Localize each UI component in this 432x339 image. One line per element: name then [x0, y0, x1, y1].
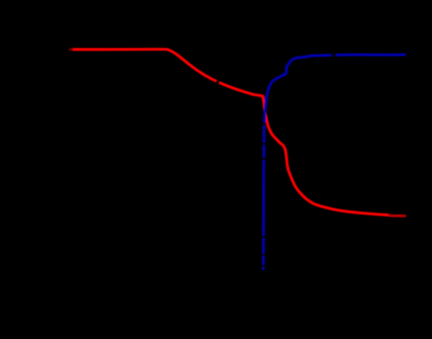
blue curve (rising branch, with small dash gaps on the steep part)	[263, 55, 406, 270]
red curve dim lead-in segment	[69, 48, 73, 51]
red curve dim tail end segment	[389, 214, 406, 217]
red curve (declining branch)	[73, 49, 389, 215]
